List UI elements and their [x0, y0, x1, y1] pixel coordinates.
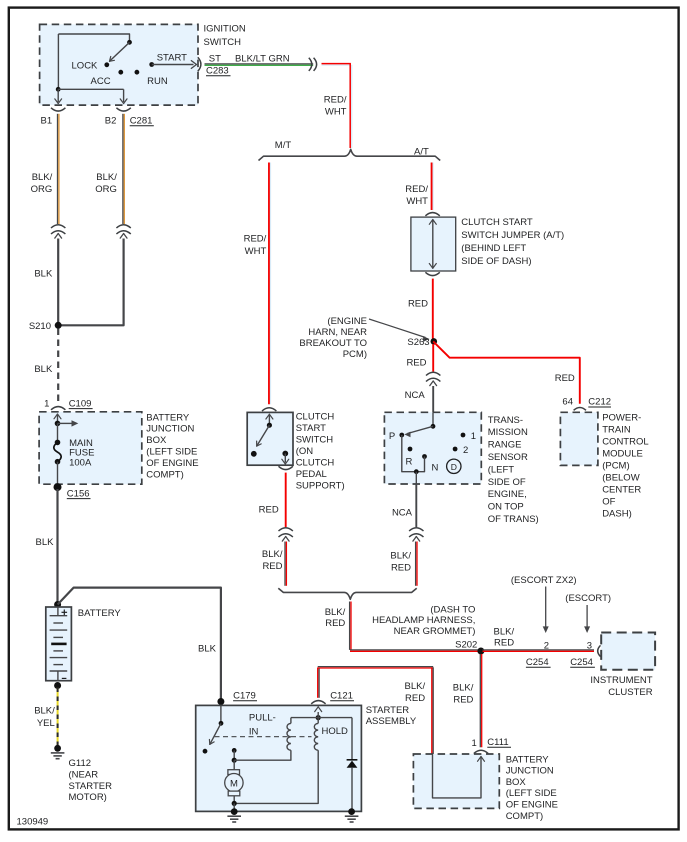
svg-text:C283: C283	[206, 66, 229, 77]
hold coil	[234, 718, 318, 804]
svg-text:BLK/: BLK/	[390, 550, 411, 561]
contact D	[447, 459, 461, 473]
START output arrow	[152, 61, 197, 69]
svg-text:(LEFT SIDE: (LEFT SIDE	[506, 788, 557, 799]
clutch start switch box	[247, 412, 293, 465]
BLK label starter feed	[198, 643, 217, 654]
connector C111 arc	[474, 750, 488, 753]
wire BLK/LT GRN	[205, 64, 314, 65]
contact P	[399, 433, 404, 438]
svg-text:CLUTCH: CLUTCH	[296, 457, 335, 468]
svg-text:BLK/: BLK/	[96, 172, 117, 183]
R label	[406, 456, 413, 467]
escort note	[565, 593, 611, 604]
instrument cluster box	[601, 633, 655, 670]
LOCK label	[72, 60, 99, 71]
A/T label	[414, 146, 429, 157]
svg-text:2: 2	[463, 445, 468, 456]
wire BLK/ORG B2	[123, 114, 124, 224]
battery label	[78, 608, 122, 619]
svg-text:(BELOW: (BELOW	[602, 473, 640, 484]
B2 exit arrow	[120, 89, 127, 103]
wire BLK/RED C111 to S202	[480, 654, 481, 747]
wire BLK fusible to C109	[57, 329, 59, 404]
connector C212 label	[588, 397, 611, 408]
svg-text:BLK/: BLK/	[32, 172, 53, 183]
svg-text:C179: C179	[233, 691, 256, 702]
svg-text:WHT: WHT	[325, 107, 347, 118]
wire BLK B2	[58, 239, 123, 326]
clutch start switch jumper box	[411, 217, 456, 271]
svg-text:START: START	[157, 52, 187, 63]
wire RED jumper to S263	[432, 279, 434, 339]
escort arrow	[584, 605, 590, 633]
svg-text:1: 1	[472, 738, 477, 749]
inline connector sensor	[409, 528, 423, 541]
sensor selector arm	[404, 426, 433, 437]
svg-text:STARTER: STARTER	[366, 705, 410, 716]
RED label PCM branch	[555, 373, 575, 384]
svg-text:BATTERY: BATTERY	[146, 412, 190, 423]
svg-text:S202: S202	[455, 639, 477, 650]
wire RED clutch	[285, 473, 287, 527]
svg-text:RED/: RED/	[324, 94, 347, 105]
ACC contact	[118, 70, 123, 75]
svg-text:(LEFT: (LEFT	[488, 464, 515, 475]
clutch start switch contact	[251, 451, 257, 457]
BLK/RED label C111	[453, 682, 474, 705]
svg-text:OF: OF	[602, 497, 615, 508]
wire BLK/RED C121	[318, 667, 434, 754]
wire BLK battery to C179	[58, 588, 221, 702]
svg-text:SIDE OF: SIDE OF	[488, 477, 526, 488]
svg-text:2: 2	[544, 640, 549, 651]
svg-text:G112: G112	[69, 758, 92, 769]
svg-text:M/T: M/T	[275, 140, 292, 151]
wire BLK/RED clutch	[285, 542, 286, 586]
wire NCA to sensor	[432, 386, 434, 412]
svg-text:(ON: (ON	[296, 446, 314, 457]
svg-text:BLK: BLK	[36, 537, 55, 548]
HOLD label	[322, 726, 349, 737]
S202 label	[455, 639, 477, 650]
RUN label	[147, 76, 168, 87]
svg-text:MOTOR): MOTOR)	[69, 792, 107, 803]
svg-text:RED: RED	[555, 373, 575, 384]
wire BLK C156 to battery	[56, 489, 58, 605]
svg-text:WHT: WHT	[245, 246, 267, 257]
svg-text:MISSION: MISSION	[488, 427, 528, 438]
solenoid switch input	[219, 705, 224, 725]
svg-text:OF ENGINE: OF ENGINE	[146, 458, 198, 469]
BLK/ORG label B2	[95, 172, 117, 195]
svg-text:RED: RED	[262, 561, 282, 572]
S210 label	[29, 321, 51, 332]
1 label	[471, 431, 476, 442]
connector C254 pin3 label	[570, 657, 595, 668]
RED/WHT label M/T	[244, 234, 267, 257]
inline connector C1035	[309, 58, 317, 71]
svg-text:TRANS-: TRANS-	[488, 415, 523, 426]
svg-text:OF TRANS): OF TRANS)	[488, 514, 539, 525]
wire RED below S263	[432, 344, 434, 372]
BLK/RED label merge	[325, 607, 346, 629]
svg-text:BREAKOUT TO: BREAKOUT TO	[299, 338, 367, 349]
ignition switch rotor arm	[110, 42, 130, 61]
svg-text:ENGINE,: ENGINE,	[488, 489, 527, 500]
connector C179	[217, 698, 224, 705]
battery	[46, 607, 72, 681]
2 label	[463, 445, 468, 456]
battery junction box 2	[413, 754, 499, 808]
ignition feed wire B1-B2	[56, 34, 124, 92]
main fuse label	[69, 438, 94, 469]
battery junction box label	[146, 412, 198, 480]
jumper internal wire	[429, 220, 436, 269]
battery negative node	[54, 682, 61, 689]
contact 2	[453, 447, 458, 452]
svg-text:IGNITION: IGNITION	[204, 24, 246, 35]
svg-text:CENTER: CENTER	[602, 485, 641, 496]
svg-text:DASH): DASH)	[602, 509, 632, 520]
svg-text:BLK/: BLK/	[34, 706, 55, 717]
P label	[389, 431, 395, 442]
pin B2 label	[105, 116, 117, 127]
svg-text:(NEAR: (NEAR	[69, 769, 99, 780]
solenoid contact	[203, 749, 208, 754]
harness note S202	[372, 604, 475, 637]
svg-text:S210: S210	[29, 321, 51, 332]
motor feed	[232, 750, 237, 762]
svg-text:WHT: WHT	[406, 196, 428, 207]
connector C156	[54, 483, 62, 491]
pin B1 label	[41, 116, 53, 127]
PULL-IN label	[249, 712, 276, 737]
contact 1	[461, 433, 466, 438]
BLK/LT GRN label	[235, 53, 290, 64]
pin 1 label C109	[44, 398, 49, 409]
svg-text:CONTROL: CONTROL	[602, 437, 648, 448]
diode ground	[345, 808, 359, 822]
svg-text:CLUSTER: CLUSTER	[608, 687, 652, 698]
motor ground	[227, 803, 241, 822]
BLK/RED label clutch	[262, 549, 283, 572]
bjb entry arrow	[54, 414, 61, 426]
LOCK contact	[104, 62, 109, 67]
svg-text:BLK: BLK	[34, 364, 53, 375]
connector C283 arc	[198, 57, 201, 71]
svg-text:BATTERY: BATTERY	[506, 754, 550, 765]
RED label clutch	[259, 505, 279, 516]
connector C281 pin B1 arc	[51, 108, 65, 111]
svg-text:64: 64	[562, 397, 573, 408]
sensor exit wire	[415, 472, 417, 484]
connector C254 pin2 label	[526, 657, 551, 668]
ACC label	[91, 76, 111, 87]
svg-text:COMPT): COMPT)	[506, 811, 543, 822]
svg-text:BATTERY: BATTERY	[78, 608, 122, 619]
svg-text:BLK/: BLK/	[325, 607, 346, 618]
jumper connector arc	[425, 213, 439, 216]
BLK label B1	[34, 268, 53, 279]
svg-text:RED/: RED/	[405, 184, 428, 195]
connector C212 arc	[574, 408, 586, 411]
svg-text:JUNCTION: JUNCTION	[146, 424, 194, 435]
svg-text:C254: C254	[570, 657, 593, 668]
wire BLK/ORG B1	[58, 114, 59, 224]
RED label above S263	[408, 298, 428, 309]
svg-text:SIDE OF DASH): SIDE OF DASH)	[461, 256, 531, 267]
splice S263	[431, 338, 438, 345]
svg-text:3: 3	[587, 640, 592, 651]
BLK/YEL label	[34, 706, 55, 729]
svg-text:SWITCH: SWITCH	[296, 434, 334, 445]
BLK/RED label cluster	[493, 627, 514, 649]
inline connector clutch	[279, 528, 293, 541]
RUN contact	[135, 70, 140, 75]
clutch start switch connector arc	[262, 408, 276, 411]
figure number	[17, 817, 49, 828]
svg-text:ON TOP: ON TOP	[488, 502, 524, 513]
svg-text:RED/: RED/	[244, 234, 267, 245]
svg-text:ACC: ACC	[91, 76, 111, 87]
svg-text:POWER-: POWER-	[602, 413, 641, 424]
note arrow to S263	[369, 319, 430, 342]
pin 1 label C111	[472, 738, 477, 749]
svg-text:CLUTCH: CLUTCH	[296, 411, 335, 422]
M/T label	[275, 140, 292, 151]
svg-text:BLK/: BLK/	[404, 681, 425, 692]
wire RED/WHT M/T	[269, 163, 271, 405]
wire BLK/RED to cluster	[483, 650, 595, 651]
svg-text:(ENGINE: (ENGINE	[327, 316, 367, 327]
wire RED/WHT A/T	[432, 163, 434, 211]
svg-text:C156: C156	[67, 488, 90, 499]
pin 3 label	[587, 640, 592, 651]
svg-text:RED: RED	[259, 505, 279, 516]
branch brace	[259, 149, 441, 160]
connector C111 label	[487, 737, 511, 748]
BLK/RED label sensor	[390, 550, 411, 573]
ignition switch internal wire	[58, 34, 131, 45]
svg-text:TRAIN: TRAIN	[602, 425, 631, 436]
escort zx2 arrow	[543, 587, 549, 634]
svg-text:START: START	[296, 423, 326, 434]
pull-in coil	[234, 718, 291, 761]
RED/WHT label	[324, 94, 347, 117]
motor contact	[232, 748, 237, 753]
RED label below S263	[406, 358, 426, 369]
svg-text:HARN, NEAR: HARN, NEAR	[308, 327, 367, 338]
svg-text:P: P	[389, 431, 395, 442]
START label	[157, 52, 187, 63]
svg-text:R: R	[406, 456, 413, 467]
svg-text:RED: RED	[325, 618, 345, 629]
svg-text:(ESCORT): (ESCORT)	[565, 593, 611, 604]
clutch start switch arm	[257, 425, 270, 446]
svg-text:C121: C121	[330, 691, 353, 702]
svg-text:C212: C212	[588, 397, 611, 408]
svg-text:CLUTCH START: CLUTCH START	[461, 217, 533, 228]
splice S210	[55, 322, 62, 329]
svg-text:RED: RED	[406, 358, 426, 369]
wire RED S263 to PCM	[433, 341, 580, 403]
battery junction box 2 label	[506, 754, 558, 822]
wire BLK/RED sensor	[416, 542, 417, 586]
svg-text:130949: 130949	[17, 817, 49, 828]
svg-text:SENSOR: SENSOR	[488, 452, 528, 463]
svg-text:LOCK: LOCK	[72, 60, 99, 71]
svg-text:RANGE: RANGE	[488, 440, 522, 451]
BLK label fusible	[34, 364, 53, 375]
BLK/ORG label B1	[31, 172, 53, 195]
svg-text:IN: IN	[249, 726, 259, 737]
svg-text:BLK: BLK	[34, 268, 53, 279]
svg-text:ORG: ORG	[31, 184, 53, 195]
svg-text:(PCM): (PCM)	[602, 461, 629, 472]
svg-text:N: N	[432, 462, 439, 473]
inline connector B1	[51, 225, 65, 238]
wire BLK/RED to S202	[350, 602, 480, 652]
svg-text:1: 1	[471, 431, 476, 442]
svg-text:(BEHIND LEFT: (BEHIND LEFT	[461, 243, 526, 254]
svg-text:BLK: BLK	[198, 643, 217, 654]
sensor input wire	[431, 412, 436, 428]
connector C121 label	[330, 691, 354, 702]
clutch start switch label	[296, 411, 345, 491]
powertrain control module label	[602, 413, 648, 520]
engine harness note	[299, 316, 367, 360]
svg-text:BLK/: BLK/	[493, 627, 514, 638]
svg-text:HOLD: HOLD	[322, 726, 349, 737]
svg-text:NEAR GROMMET): NEAR GROMMET)	[394, 626, 476, 637]
N label	[432, 462, 439, 473]
svg-text:ST: ST	[209, 53, 221, 64]
svg-text:1: 1	[44, 398, 49, 409]
battery junction box	[39, 412, 142, 484]
battery positive node	[54, 601, 61, 608]
svg-text:NCA: NCA	[405, 390, 426, 401]
inline connector S263-TRS	[426, 372, 440, 385]
connector C121 arc	[311, 701, 325, 704]
contact R	[408, 447, 413, 452]
powertrain control module box	[560, 412, 598, 465]
splice S202	[477, 648, 484, 655]
B1 exit arrow	[55, 89, 62, 103]
connector C281 label	[130, 116, 154, 127]
svg-text:BOX: BOX	[146, 435, 167, 446]
svg-text:SWITCH: SWITCH	[204, 37, 242, 48]
S263 label	[407, 337, 429, 348]
connector C283 label	[206, 66, 231, 77]
svg-text:(LEFT SIDE: (LEFT SIDE	[146, 447, 197, 458]
svg-text:S263: S263	[407, 337, 429, 348]
main fuse 100A	[54, 423, 61, 487]
svg-text:ASSEMBLY: ASSEMBLY	[366, 716, 417, 727]
clutch start switch entry arrow	[266, 414, 273, 428]
bjb feed arrow	[58, 420, 79, 426]
svg-text:A/T: A/T	[414, 146, 429, 157]
NCA label lower	[392, 507, 413, 518]
G112 label	[69, 758, 113, 803]
svg-text:RED: RED	[391, 563, 411, 574]
svg-text:RED: RED	[494, 638, 514, 649]
svg-text:C109: C109	[69, 398, 92, 409]
svg-text:NCA: NCA	[392, 507, 413, 518]
bjb2 internal wire	[433, 754, 485, 798]
svg-text:HEADLAMP HARNESS,: HEADLAMP HARNESS,	[372, 615, 475, 626]
svg-text:BLK/LT GRN: BLK/LT GRN	[235, 53, 290, 64]
svg-text:(ESCORT ZX2): (ESCORT ZX2)	[511, 575, 577, 586]
merge brace	[278, 588, 416, 599]
svg-text:(DASH TO: (DASH TO	[430, 604, 475, 615]
svg-text:PCM): PCM)	[343, 349, 367, 360]
svg-text:SWITCH JUMPER (A/T): SWITCH JUMPER (A/T)	[461, 230, 564, 241]
svg-text:C281: C281	[130, 116, 153, 127]
RED/WHT label A/T	[405, 184, 428, 207]
solenoid switch arm	[209, 723, 221, 744]
inline connector B2	[116, 225, 130, 238]
transmission range sensor label	[488, 415, 539, 525]
ignition switch box	[40, 24, 198, 105]
escort zx2 note	[511, 575, 577, 586]
START contact	[149, 62, 154, 67]
svg-text:MODULE: MODULE	[602, 449, 643, 460]
svg-text:ORG: ORG	[95, 184, 117, 195]
BLK/RED label C121 branch	[404, 681, 425, 704]
starter assembly box	[196, 705, 362, 811]
svg-text:C254: C254	[526, 657, 549, 668]
svg-text:BLK/: BLK/	[262, 549, 283, 560]
connector C109 label	[69, 398, 93, 409]
contact N	[422, 454, 427, 459]
svg-text:100A: 100A	[69, 458, 92, 469]
wire NCA below sensor	[415, 484, 417, 527]
diode	[347, 718, 358, 812]
svg-text:STARTER: STARTER	[69, 781, 113, 792]
svg-text:RED: RED	[408, 298, 428, 309]
wire RED/WHT to split	[322, 64, 352, 148]
BLK label battery	[36, 537, 55, 548]
svg-text:B1: B1	[41, 116, 53, 127]
svg-text:YEL: YEL	[37, 718, 55, 729]
svg-text:BOX: BOX	[506, 777, 527, 788]
svg-text:RED: RED	[405, 693, 425, 704]
connector C109 arc	[51, 407, 65, 410]
NCA label upper	[405, 390, 426, 401]
svg-text:M: M	[230, 779, 238, 790]
jumper exit arc	[425, 272, 439, 275]
svg-text:OF ENGINE: OF ENGINE	[506, 800, 558, 811]
clutch start switch exit arc	[279, 466, 293, 469]
connector C254 arc	[598, 645, 601, 656]
svg-text:PEDAL: PEDAL	[296, 469, 327, 480]
connector C179 label	[233, 691, 257, 702]
svg-text:RUN: RUN	[147, 76, 168, 87]
svg-text:PULL-: PULL-	[249, 712, 276, 723]
ground G112	[51, 745, 65, 759]
C121 entry arrow	[315, 707, 322, 718]
sensor internal wire	[402, 435, 425, 474]
transmission range sensor box	[384, 412, 481, 484]
starter assembly label	[366, 705, 417, 727]
motor M	[225, 760, 243, 806]
clutch start switch jumper label	[461, 217, 564, 267]
svg-text:C111: C111	[487, 737, 508, 748]
connector C281 pin B2 arc	[116, 108, 130, 111]
pin ST label	[209, 53, 221, 64]
pin 2 label	[544, 640, 549, 651]
